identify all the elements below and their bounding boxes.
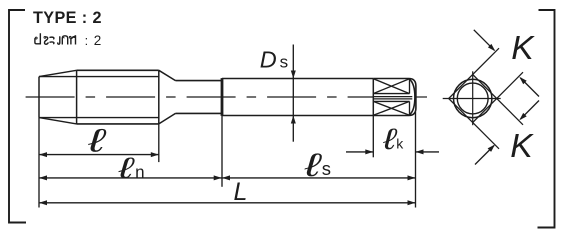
svg-text:s: s <box>322 158 331 179</box>
diamond edge L-T extended <box>449 48 499 98</box>
svg-text:n: n <box>135 163 144 182</box>
K dimension arrow upper-right <box>520 78 539 97</box>
K dimension arrow lower-left <box>475 146 494 165</box>
extension line at tap end <box>415 112 417 208</box>
thread to neck taper <box>159 70 176 80</box>
K dimension arrow lower-right <box>520 101 539 120</box>
svg-text:K: K <box>511 30 535 67</box>
svg-text:L: L <box>234 178 248 206</box>
thread root lines <box>39 76 159 78</box>
tip chamfer diagonals <box>39 70 77 76</box>
svg-text:K: K <box>510 128 534 165</box>
dimension line ln (neck length) <box>39 177 222 179</box>
diamond edge B-R extended <box>473 72 523 122</box>
dimension line L (overall length) <box>39 202 416 204</box>
extension line at thread end <box>158 124 160 162</box>
extension line at neck end <box>221 116 223 187</box>
end view shank circle <box>454 79 492 117</box>
shank section <box>222 78 373 80</box>
centerline of tap <box>26 96 373 98</box>
dimension Ds (shank diameter) <box>292 45 294 142</box>
square section outline <box>373 79 416 116</box>
end view inner circle <box>457 83 488 114</box>
diamond edge T-R extended <box>473 75 523 125</box>
square flat top box <box>373 93 409 95</box>
subtitle Thai 'ประเภท : 2' <box>35 33 101 48</box>
neck section <box>176 80 222 82</box>
shank start bold line <box>221 78 224 116</box>
thread tip edge <box>38 77 40 118</box>
end chamfer arc <box>409 79 415 115</box>
svg-text:2: 2 <box>94 33 102 48</box>
square section start line <box>372 79 374 116</box>
diamond edge L-B extended <box>449 99 499 149</box>
end view cross lines <box>443 98 501 100</box>
dimension line ls (shank length) <box>222 177 416 179</box>
svg-text:k: k <box>396 136 404 152</box>
svg-text:s: s <box>280 52 289 71</box>
extension line at square start <box>372 116 374 158</box>
extension line at tap tip <box>38 118 40 208</box>
svg-text:D: D <box>260 46 277 72</box>
svg-text:ℓ: ℓ <box>117 151 135 184</box>
dimension lk (square length, arrows outside) <box>346 151 373 153</box>
frame bracket right <box>538 10 555 228</box>
svg-text:ℓ: ℓ <box>304 147 323 184</box>
thread section outer outline <box>77 69 159 71</box>
frame bracket left <box>9 10 26 223</box>
K dimension arrow upper-left <box>474 30 494 50</box>
square middle lines <box>373 96 412 98</box>
svg-text:TYPE : 2: TYPE : 2 <box>33 9 102 27</box>
square flat bottom box <box>373 100 409 102</box>
svg-text:ℓ: ℓ <box>87 122 107 158</box>
dimension line l (thread length) <box>39 154 159 156</box>
svg-text::: : <box>85 34 89 48</box>
